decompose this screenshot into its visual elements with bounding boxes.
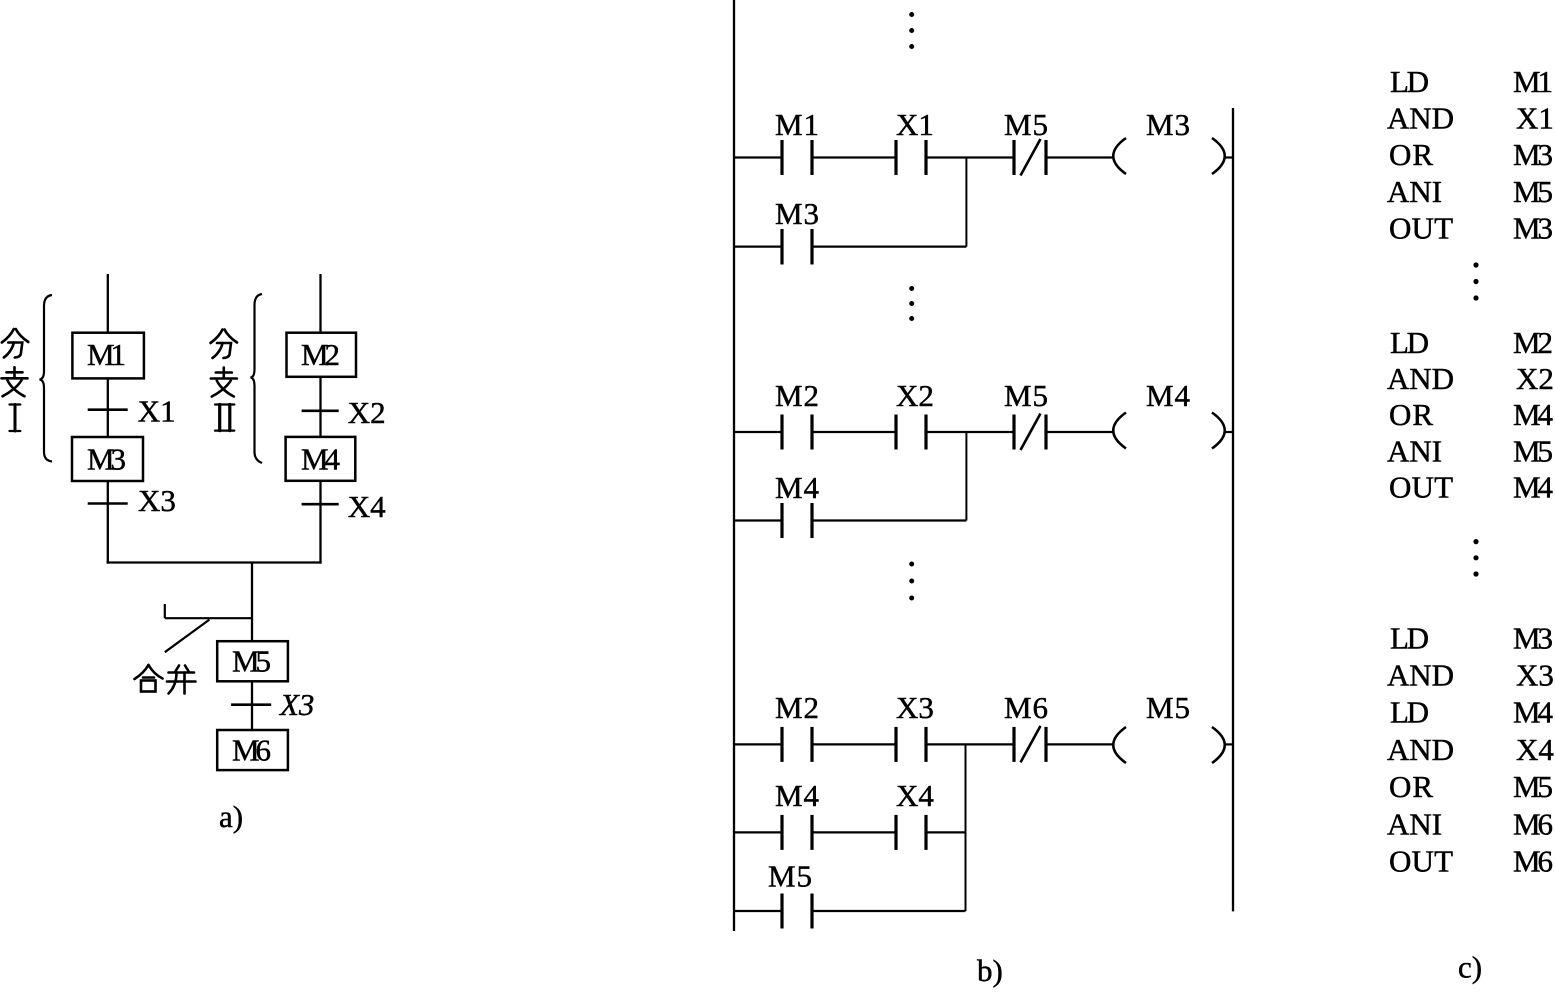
wire M5 to M6 — [251, 681, 253, 730]
svg-text:M2: M2 — [301, 337, 340, 372]
svg-text:X1: X1 — [896, 107, 934, 142]
contact M2 rung 3 — [775, 690, 819, 762]
instruction OR M5 — [1389, 769, 1553, 804]
svg-text:X4: X4 — [896, 778, 934, 813]
NC contact M5 rung 1 — [1004, 107, 1048, 176]
rung 1 wires — [734, 156, 1233, 158]
contact M3 branch — [775, 196, 819, 265]
wire branch I top — [107, 274, 109, 333]
svg-text:AND: AND — [1387, 658, 1454, 693]
instruction ANI M5 — [1387, 174, 1553, 209]
svg-text:M6: M6 — [1513, 844, 1553, 879]
right power rail — [1232, 108, 1234, 911]
left power rail — [733, 0, 735, 931]
svg-text:AND: AND — [1387, 361, 1454, 396]
svg-text:OUT: OUT — [1389, 469, 1453, 504]
svg-text:OR: OR — [1389, 137, 1433, 172]
coil M5 rung 3 — [1113, 690, 1225, 763]
svg-text:M1: M1 — [1513, 64, 1553, 99]
coil M4 rung 2 — [1113, 378, 1225, 449]
brace branch II — [251, 294, 263, 463]
wire below M4 — [319, 481, 321, 564]
svg-text:M2: M2 — [1513, 325, 1553, 360]
svg-text:b): b) — [977, 953, 1003, 988]
svg-text:M5: M5 — [1513, 174, 1553, 209]
instruction OUT M3 — [1389, 210, 1553, 245]
parallel branch M5 wires — [734, 910, 966, 912]
step box M3 — [72, 437, 143, 481]
svg-text:M4: M4 — [301, 441, 341, 476]
svg-text:M1: M1 — [87, 337, 126, 372]
contact M5 branch rung 3 — [768, 859, 812, 929]
instruction OR M3 — [1389, 137, 1553, 172]
wire below M3 — [107, 481, 109, 564]
rung 2 wires — [734, 431, 1233, 433]
svg-text:OUT: OUT — [1389, 210, 1453, 245]
instruction LD M3 — [1390, 620, 1553, 655]
svg-text:X4: X4 — [348, 489, 386, 524]
instruction AND X4 — [1387, 732, 1554, 767]
step box M1 — [72, 333, 143, 379]
svg-text:X4: X4 — [1516, 732, 1554, 767]
ellipsis dots middle — [909, 286, 914, 321]
svg-text:LD: LD — [1390, 64, 1429, 99]
merge leader callout — [165, 604, 252, 652]
svg-text:X1: X1 — [138, 393, 176, 428]
junction rung 3 to parallel branches — [965, 744, 967, 911]
instruction LD M2 — [1390, 325, 1553, 360]
instruction LD M1 — [1390, 64, 1553, 99]
svg-text:M5: M5 — [1513, 433, 1553, 468]
svg-text:AND: AND — [1387, 732, 1454, 767]
svg-text:M3: M3 — [1513, 210, 1553, 245]
svg-text:M5: M5 — [1146, 690, 1190, 725]
svg-text:M3: M3 — [1513, 137, 1553, 172]
svg-text:M4: M4 — [1513, 695, 1554, 730]
svg-text:M4: M4 — [775, 470, 820, 505]
svg-text:M4: M4 — [775, 778, 820, 813]
svg-text:LD: LD — [1390, 620, 1429, 655]
svg-text:M5: M5 — [1004, 378, 1048, 413]
parallel branch M3 wires — [734, 246, 966, 248]
svg-text:X2: X2 — [896, 378, 934, 413]
contact M4 branch rung 3 — [775, 778, 820, 850]
svg-text:X1: X1 — [1516, 101, 1554, 136]
instruction OR M4 — [1389, 397, 1554, 432]
contact M4 branch — [775, 470, 820, 538]
svg-text:X3: X3 — [1516, 658, 1554, 693]
wire branch II top — [319, 274, 321, 333]
contact X4 branch rung 3 — [896, 778, 934, 850]
rung 3 wires — [734, 743, 1233, 745]
svg-text:M3: M3 — [775, 196, 819, 231]
svg-text:LD: LD — [1390, 695, 1429, 730]
instruction ANI M5 second — [1387, 433, 1553, 468]
instruction AND X1 — [1387, 101, 1554, 136]
instruction OUT M6 — [1389, 844, 1553, 879]
parallel branch M4 X4 wires — [734, 831, 966, 833]
ellipsis dots top — [909, 12, 914, 49]
ellipsis dots list 1 — [1473, 262, 1478, 300]
instruction OUT M4 — [1389, 469, 1554, 504]
svg-text:OR: OR — [1389, 769, 1433, 804]
wire merge to M5 — [251, 563, 253, 642]
junction rung 2 to parallel branch — [965, 432, 967, 521]
label fenzhi I — [2, 329, 29, 431]
contact X1 — [896, 107, 934, 175]
contact M2 rung 2 — [775, 378, 819, 450]
label fenzhi II — [211, 330, 238, 431]
svg-text:M6: M6 — [232, 733, 271, 768]
instruction ANI M6 — [1387, 806, 1553, 841]
svg-text:M5: M5 — [232, 644, 271, 679]
svg-text:ANI: ANI — [1387, 174, 1442, 209]
svg-text:X3: X3 — [896, 690, 934, 725]
contact X2 — [896, 378, 934, 450]
svg-text:OUT: OUT — [1389, 844, 1453, 879]
NC contact M6 rung 3 — [1004, 690, 1048, 762]
NC contact M5 rung 2 — [1004, 378, 1048, 450]
wire M2 to M4 — [319, 378, 321, 437]
transition X3 after merge — [231, 687, 314, 722]
svg-text:M2: M2 — [775, 690, 819, 725]
svg-text:M6: M6 — [1513, 806, 1553, 841]
svg-text:X2: X2 — [348, 395, 386, 430]
brace branch I — [40, 295, 53, 462]
svg-text:ANI: ANI — [1387, 433, 1442, 468]
svg-text:M4: M4 — [1513, 397, 1554, 432]
svg-text:M1: M1 — [775, 107, 819, 142]
step box M6 — [217, 730, 288, 770]
instruction AND X2 — [1387, 361, 1554, 396]
instruction AND X3 — [1387, 658, 1554, 693]
ellipsis dots lower — [909, 562, 914, 601]
svg-text:M5: M5 — [1513, 769, 1553, 804]
junction rung 1 to parallel branch — [965, 158, 967, 247]
transition X2 — [302, 395, 386, 430]
transition X3 — [88, 483, 176, 518]
svg-text:c): c) — [1458, 950, 1482, 985]
step box M5 — [217, 641, 288, 681]
svg-text:LD: LD — [1390, 325, 1429, 360]
svg-text:ANI: ANI — [1387, 806, 1442, 841]
svg-text:M4: M4 — [1146, 378, 1191, 413]
svg-text:M3: M3 — [87, 441, 126, 476]
svg-text:M5: M5 — [1004, 107, 1048, 142]
svg-text:M5: M5 — [768, 859, 812, 894]
svg-text:M3: M3 — [1513, 620, 1553, 655]
merge bar wire — [107, 561, 322, 563]
svg-text:a): a) — [219, 799, 243, 834]
instruction LD M4 — [1390, 695, 1554, 730]
transition X1 — [88, 393, 176, 428]
ellipsis dots list 2 — [1473, 539, 1478, 577]
svg-text:M4: M4 — [1513, 469, 1554, 504]
svg-text:X3: X3 — [278, 687, 314, 722]
parallel branch M4 wires — [734, 519, 966, 521]
svg-text:AND: AND — [1387, 101, 1454, 136]
label hebing (merge) — [135, 665, 196, 694]
wire M1 to M3 — [107, 378, 109, 437]
svg-text:M2: M2 — [775, 378, 819, 413]
transition X4 — [302, 489, 387, 524]
svg-text:M3: M3 — [1146, 107, 1190, 142]
step box M4 — [286, 437, 356, 481]
svg-text:X2: X2 — [1516, 361, 1554, 396]
contact M1 — [775, 107, 819, 175]
coil M3 rung 1 — [1113, 107, 1225, 174]
svg-text:M6: M6 — [1004, 690, 1048, 725]
PART A : SFC diagram — [107, 274, 322, 730]
svg-text:OR: OR — [1389, 397, 1433, 432]
svg-text:X3: X3 — [138, 483, 176, 518]
contact X3 rung 3 — [896, 690, 934, 762]
step box M2 — [287, 333, 357, 377]
